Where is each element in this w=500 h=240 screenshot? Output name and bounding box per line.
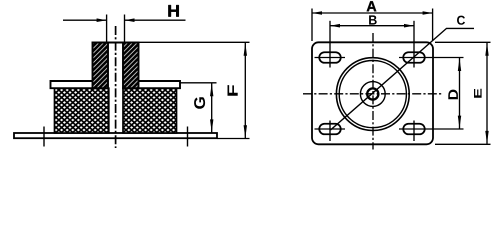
bottom plate hole tick left <box>43 127 45 147</box>
slot hole bottom-left <box>319 124 341 135</box>
slot centerline horizontal bottom-left <box>315 128 346 130</box>
slot vertical line top-left (B ext) <box>329 21 331 68</box>
center hole <box>367 88 378 99</box>
outer rubber circle <box>336 58 409 131</box>
horizontal centerline <box>303 93 442 95</box>
square base plate <box>312 42 433 144</box>
A dimension: extension lines <box>311 9 313 42</box>
stud (threaded bush) left half <box>93 43 109 89</box>
slot centerline + D ext bottom-right <box>399 128 464 130</box>
E dimension line with arrows <box>486 43 488 144</box>
H dimension: extension lines <box>106 15 108 43</box>
centerline (vertical, left view) <box>115 26 117 148</box>
A dimension line with arrows <box>312 12 433 14</box>
H label <box>168 5 178 17</box>
inner rim circle <box>339 61 406 128</box>
E label (rotated) <box>474 89 482 98</box>
C label <box>457 16 465 25</box>
middle boss circle <box>360 82 385 107</box>
slot hole top-left <box>319 52 341 63</box>
A label <box>367 1 377 11</box>
slot vertical line top-right (B ext) <box>413 21 415 68</box>
D dimension line with arrows <box>459 58 461 129</box>
F dimension line with arrows <box>244 43 246 138</box>
vertical centerline <box>372 33 374 150</box>
F dimension: bottom extension line <box>218 138 250 140</box>
H dimension line right segment with arrow <box>125 19 186 21</box>
F label (rotated) <box>228 85 238 96</box>
bottom plate hole tick right <box>187 127 189 147</box>
F dimension: top extension line <box>139 41 250 43</box>
slot vertical line bottom-right <box>413 121 415 142</box>
H dimension line left segment with arrow <box>63 19 107 21</box>
slot vertical line bottom-left <box>329 121 331 142</box>
slot hole bottom-right <box>403 124 425 135</box>
bottom plate <box>14 133 217 138</box>
slot centerline + D ext top-right <box>399 57 464 59</box>
G label (rotated) <box>194 97 205 109</box>
B dimension line with arrows <box>330 25 414 27</box>
rubber block left half <box>55 88 109 133</box>
diagonal leader line to C <box>331 28 475 130</box>
slot hole top-right <box>403 52 425 63</box>
top plate <box>51 81 181 88</box>
D label (rotated) <box>448 90 458 100</box>
stud top edge line <box>92 41 140 43</box>
B label <box>369 15 377 24</box>
stud (threaded bush) right half <box>123 43 139 89</box>
rubber block right half <box>123 88 177 133</box>
G dimension line with arrows <box>211 83 213 132</box>
E dimension: extension lines <box>435 41 491 43</box>
slot centerline horizontal top-left <box>315 57 346 59</box>
G dimension: top extension line <box>181 82 217 84</box>
